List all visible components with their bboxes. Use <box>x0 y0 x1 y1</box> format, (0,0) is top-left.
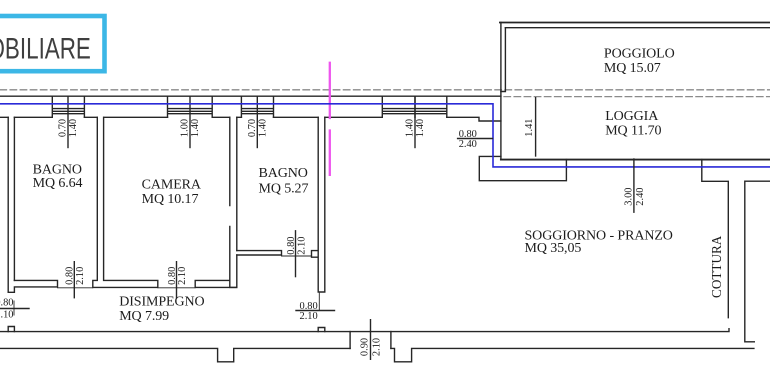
svg-text:MQ 35,05: MQ 35,05 <box>525 241 582 256</box>
poggiolo parapet inner top <box>505 27 770 29</box>
svg-text:0.70: 0.70 <box>247 119 258 137</box>
bagno1 south wall <box>8 280 57 292</box>
svg-text:CAMERA: CAMERA <box>142 177 202 192</box>
svg-text:0.80: 0.80 <box>0 298 14 309</box>
svg-text:MQ 15.07: MQ 15.07 <box>604 61 661 76</box>
window W2 1.00x1.40 <box>168 96 213 117</box>
door dim line bagno2 <box>295 231 297 277</box>
left wall door stub <box>8 327 14 332</box>
svg-text:COTTURA: COTTURA <box>709 235 724 298</box>
wall camera/bagno2 <box>230 117 237 287</box>
svg-text:POGGIOLO: POGGIOLO <box>604 47 675 62</box>
south lower exterior line with pillars <box>0 348 754 361</box>
south entry door jambs <box>350 332 391 349</box>
svg-text:1.00: 1.00 <box>180 119 191 137</box>
dim extension tick left door <box>13 301 15 315</box>
threshold line disimpegno <box>58 287 93 289</box>
svg-text:1.40: 1.40 <box>405 119 416 137</box>
magenta reference line <box>329 63 331 175</box>
svg-text:MQ 10.17: MQ 10.17 <box>142 192 199 207</box>
svg-text:DISIMPEGNO: DISIMPEGNO <box>119 294 204 309</box>
window W1 0.70x1.40 <box>52 96 84 117</box>
svg-text:0.80: 0.80 <box>167 267 178 285</box>
svg-text:2.40: 2.40 <box>635 188 646 206</box>
wall bagno2 right / disimpegno east <box>312 117 325 292</box>
svg-text:LOGGIA: LOGGIA <box>605 109 659 124</box>
svg-text:1.40: 1.40 <box>190 119 201 137</box>
dim line 1.41 loggia <box>535 98 537 156</box>
svg-text:2.10: 2.10 <box>0 310 14 321</box>
threshold bagno2 door <box>282 255 312 257</box>
svg-text:3.00: 3.00 <box>624 188 635 206</box>
svg-text:0.80: 0.80 <box>286 237 297 255</box>
window W4 center divider <box>414 96 416 117</box>
door dim line south entry <box>370 320 372 360</box>
loggia left wall (outer) <box>500 23 502 160</box>
window W4 dimension line <box>414 96 416 147</box>
window W2 dimension line <box>189 96 191 147</box>
svg-text:2.10: 2.10 <box>300 311 318 322</box>
window W3 0.70x1.40 <box>241 96 273 117</box>
loggia step rectangle <box>479 156 566 180</box>
svg-text:2.10: 2.10 <box>296 237 307 255</box>
north wall bottom face segments <box>0 117 501 121</box>
dim extension tick east door <box>318 293 320 310</box>
svg-text:1.41: 1.41 <box>524 119 535 137</box>
svg-text:MQ 11.70: MQ 11.70 <box>605 124 661 139</box>
east wall of soggiorno <box>745 181 770 342</box>
blue perimeter line <box>0 104 770 167</box>
window W3 dimension line <box>256 96 258 147</box>
svg-text:1.40: 1.40 <box>68 119 79 137</box>
svg-text:MQ 7.99: MQ 7.99 <box>119 309 169 324</box>
svg-text:2.10: 2.10 <box>372 338 383 356</box>
door dim line bagno1 <box>73 262 75 298</box>
dashed boundary line top <box>0 89 770 91</box>
logo watermark box <box>0 16 105 71</box>
svg-text:1.40: 1.40 <box>257 119 268 137</box>
poggiolo parapet inner left <box>501 28 506 92</box>
svg-text:2.10: 2.10 <box>75 267 86 285</box>
svg-text:BAGNO: BAGNO <box>259 166 308 181</box>
north wall top face <box>0 95 501 97</box>
door dim line camera <box>176 262 178 298</box>
cottura west wall <box>702 160 729 318</box>
disimpegno east door stub <box>318 328 325 332</box>
disimpegno/soggiorno south wall upper line <box>0 329 729 332</box>
svg-text:MQ 5.27: MQ 5.27 <box>259 182 309 197</box>
svg-text:0.90: 0.90 <box>359 338 370 356</box>
svg-text:1.40: 1.40 <box>415 119 426 137</box>
svg-text:0.80: 0.80 <box>65 267 76 285</box>
dim fraction line east door <box>296 310 335 312</box>
left exterior wall of bagno1 <box>8 117 14 292</box>
svg-text:2.10: 2.10 <box>177 267 188 285</box>
dashed boundary line poggiolo/loggia <box>504 96 770 98</box>
threshold camera door <box>158 287 195 289</box>
window W4 1.40x1.40 <box>382 96 447 117</box>
camera south wall right segment <box>195 280 237 287</box>
loggia south wall <box>501 159 770 161</box>
poggiolo parapet outer top <box>500 22 770 24</box>
dim fraction line left door <box>0 308 29 310</box>
svg-text:OBILIARE: OBILIARE <box>0 31 91 65</box>
svg-text:0.70: 0.70 <box>58 119 69 137</box>
dim fraction line 0.80/2.40 <box>458 138 493 140</box>
svg-text:MQ 6.64: MQ 6.64 <box>33 176 83 191</box>
window W1 dimension line <box>67 96 69 147</box>
dim line 3.00/2.40 soggiorno <box>633 159 635 212</box>
wall bagno1/camera <box>93 117 158 287</box>
svg-text:2.40: 2.40 <box>459 139 477 150</box>
bagno2 south wall <box>237 251 282 255</box>
